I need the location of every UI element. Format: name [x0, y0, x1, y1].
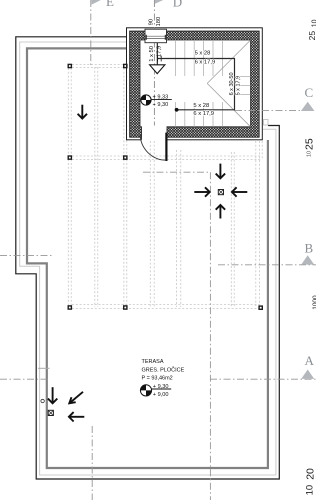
slope arrow D2 left — [69, 412, 84, 421]
svg-text:E: E — [106, 0, 114, 9]
section line left jog — [0, 254, 53, 256]
wire terrace parapet middle edge — [20, 42, 276, 475]
svg-text:1 x 50: 1 x 50 — [149, 46, 155, 62]
section line A right — [210, 378, 316, 380]
section marker D top — [155, 0, 182, 9]
level marker terrace — [140, 384, 171, 398]
node post P3 — [68, 155, 73, 160]
node post P4 — [123, 155, 128, 160]
pipe circle D2 — [41, 399, 44, 402]
section marker B — [301, 240, 314, 264]
svg-text:5 x 28: 5 x 28 — [195, 50, 211, 56]
svg-text:GRES. PLOČICE: GRES. PLOČICE — [142, 366, 185, 373]
svg-text:6 x 17,9: 6 x 17,9 — [195, 59, 216, 65]
door swing arc — [140, 134, 166, 160]
slope arrow D2 diagonal — [69, 392, 83, 404]
stair winder diagonal lower — [207, 83, 250, 126]
stair walk line end dot — [175, 108, 179, 112]
slope arrow D1 right — [194, 187, 209, 196]
stairwell outer outline — [127, 28, 263, 140]
svg-text:TERASA: TERASA — [142, 359, 164, 365]
section line A left — [0, 378, 50, 380]
svg-text:17,9: 17,9 — [156, 46, 162, 57]
svg-text:5 x 28: 5 x 28 — [193, 103, 209, 109]
svg-text:+ 9,30: + 9,30 — [153, 384, 169, 390]
wire dotted beam line V6 — [230, 152, 232, 307]
svg-text:180: 180 — [156, 17, 162, 27]
section marker A — [301, 353, 314, 379]
axis E dash-dot bottom — [91, 426, 93, 500]
stair lower flight treads — [174, 102, 176, 127]
stairwell hatched wall — [130, 31, 260, 137]
stair winder treads — [236, 75, 251, 77]
svg-text:A: A — [305, 353, 315, 368]
door leaf — [165, 133, 167, 161]
svg-text:5 x 17,9: 5 x 17,9 — [235, 76, 241, 96]
svg-text:6 x 17,9: 6 x 17,9 — [193, 111, 214, 117]
drain axis polyline — [143, 172, 210, 500]
section marker C — [301, 85, 315, 111]
svg-text:90: 90 — [149, 19, 155, 25]
svg-text:10: 10 — [306, 151, 312, 157]
wire dotted beam line V4 — [149, 141, 151, 307]
svg-text:6 x 30-50: 6 x 30-50 — [229, 72, 235, 95]
wire dotted beam line V1 — [67, 68, 69, 307]
svg-text:10: 10 — [311, 19, 316, 27]
wire dotted beam line V7 — [255, 141, 257, 306]
node wall joint tick left — [38, 367, 50, 369]
wire terrace parapet inner edge — [27, 48, 268, 468]
wire dotted beam line V5 — [176, 150, 178, 307]
wire dotted stub V8 — [261, 141, 263, 160]
svg-text:1000: 1000 — [312, 295, 316, 310]
stair walk line — [158, 59, 235, 110]
slope arrow D2 down — [48, 387, 57, 403]
level marker stairwell — [141, 95, 172, 108]
svg-text:B: B — [305, 240, 314, 255]
svg-text:+ 9,00: + 9,00 — [153, 392, 169, 398]
stair upper flight treads — [175, 41, 250, 127]
section marker E top — [91, 0, 114, 9]
slope arrow terrace upper left — [78, 105, 87, 119]
svg-text:+ 9,30: + 9,30 — [153, 102, 169, 108]
section line C — [235, 109, 316, 111]
node post P7 — [258, 305, 263, 310]
svg-text:20: 20 — [305, 468, 316, 480]
slope arrow D1 up — [216, 205, 225, 219]
wire terrace parapet outer edge — [16, 37, 280, 479]
axis D dash-dot vertical — [153, 0, 155, 140]
stair winder diagonal upper — [207, 40, 250, 83]
section line B — [218, 264, 316, 266]
node post P5 — [68, 305, 73, 310]
svg-text:D: D — [173, 0, 182, 9]
stair walk line start ticks — [157, 56, 159, 62]
stair entry shaft — [156, 43, 158, 65]
node pilaster bump right wall — [264, 120, 269, 126]
wire dotted beam line H3 — [72, 304, 262, 306]
node post P2 — [123, 64, 128, 69]
axis E dash-dot top — [90, 0, 92, 67]
slope arrow D1 down — [216, 164, 225, 179]
svg-text:+ 9,33: + 9,33 — [153, 95, 169, 101]
window opening top wall — [145, 29, 167, 43]
wire dotted beam line H2 — [72, 155, 262, 157]
drain point D2 — [48, 410, 53, 415]
door opening bottom wall — [142, 126, 168, 141]
svg-text:25: 25 — [307, 31, 316, 41]
slope arrow D1 left — [232, 187, 247, 196]
svg-text:10: 10 — [304, 485, 315, 496]
svg-text:25: 25 — [303, 138, 315, 150]
svg-text:P = 93,46m2: P = 93,46m2 — [142, 376, 173, 382]
drain point D1 — [218, 190, 223, 195]
node post P6 — [123, 305, 128, 310]
room label TERASA — [142, 359, 185, 382]
svg-text:C: C — [305, 85, 314, 100]
stair entry arrow head — [150, 65, 165, 74]
wire dotted beam line V2 — [94, 67, 96, 307]
node post P1 — [68, 64, 73, 69]
wire dotted beam line V3 — [123, 68, 125, 307]
wire dotted beam line H1 — [68, 65, 262, 309]
